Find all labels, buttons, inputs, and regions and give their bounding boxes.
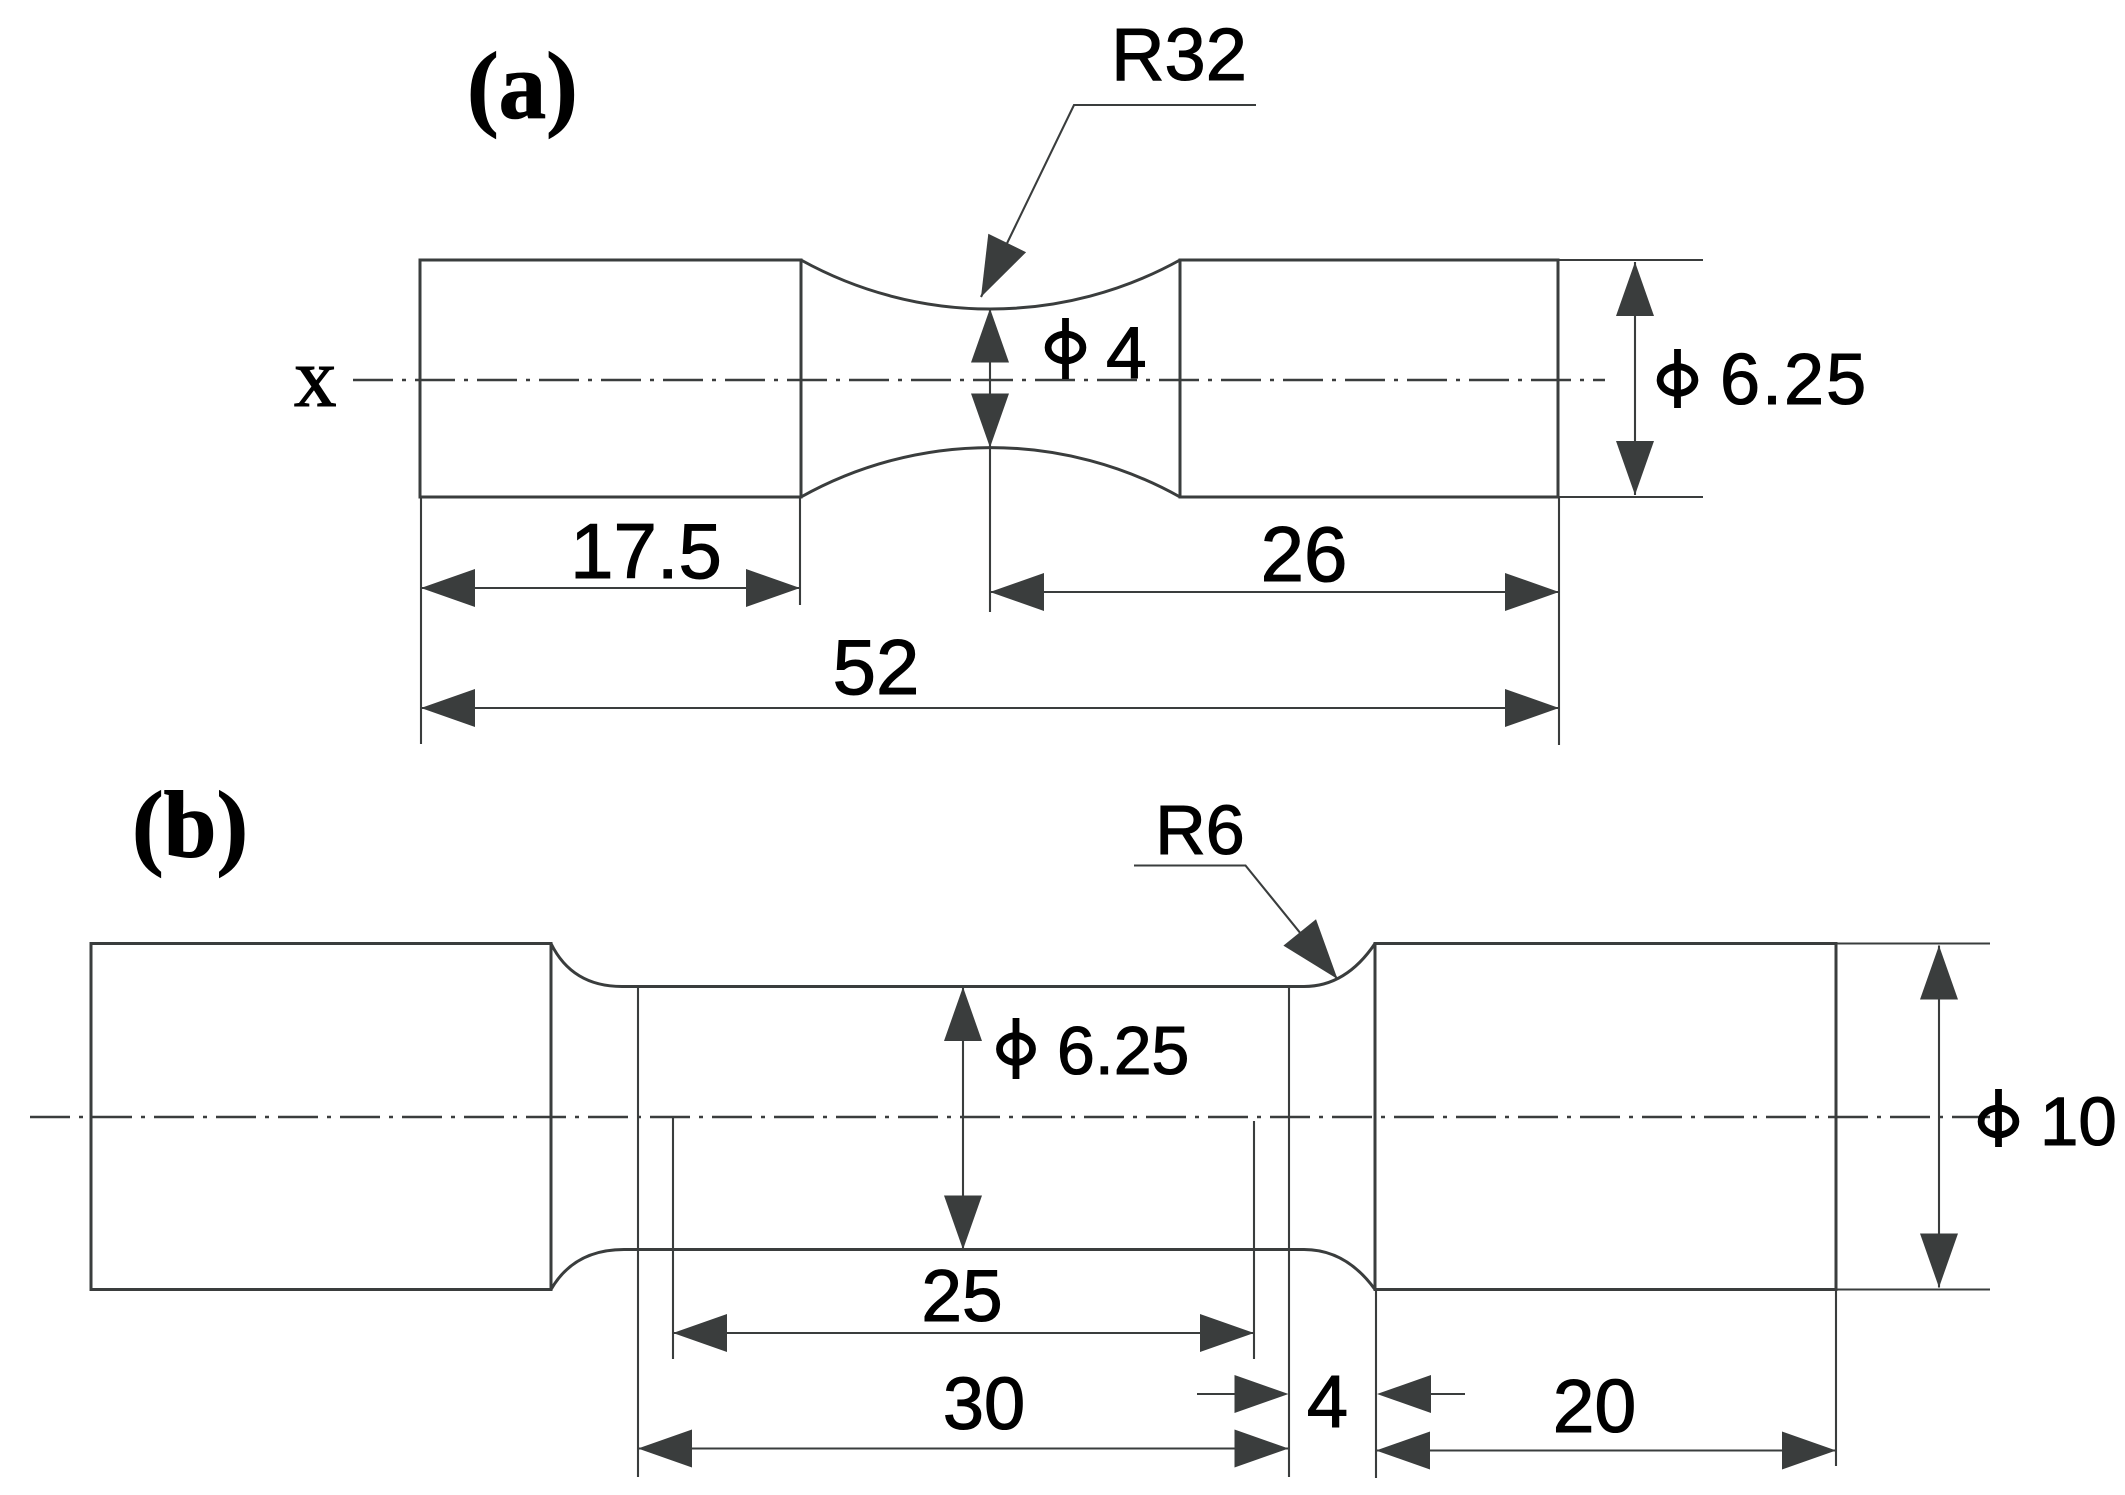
dimension 52 left arrow: [421, 689, 475, 727]
extension line gauge right b: [1288, 988, 1290, 1477]
dimension phi 10 text: [1981, 1108, 2016, 1135]
extension line 25 right tick b: [1253, 1121, 1255, 1359]
leader R6 arrowhead: [1283, 919, 1337, 979]
specimen a neck bottom arc R32: [801, 448, 1180, 497]
svg-text:30: 30: [943, 1362, 1025, 1445]
svg-text:6.25: 6.25: [1057, 1013, 1189, 1089]
dimension diameter 10 line: [1938, 946, 1940, 1288]
svg-text:10: 10: [2040, 1083, 2117, 1160]
extension line bottom right a: [1558, 496, 1703, 498]
svg-text:x: x: [294, 331, 337, 425]
svg-text:R6: R6: [1155, 791, 1244, 869]
specimen b left grip rectangle: [91, 944, 551, 1290]
dimension 30 right arrow: [1235, 1430, 1289, 1468]
specimen a right grip rectangle: [1180, 260, 1558, 497]
dimension phi 4 shaft: [989, 309, 991, 448]
dimension 26 left arrow: [990, 573, 1044, 611]
specimen b fillet top left R6: [551, 944, 622, 987]
extension line top right b: [1836, 942, 1990, 944]
centerline x-axis specimen a: [353, 379, 1605, 381]
specimen a neck top arc R32: [801, 260, 1180, 309]
extension line gauge left b: [637, 987, 639, 1478]
extension line shoulder a: [799, 497, 801, 605]
dimension 20 right arrow: [1782, 1432, 1836, 1470]
dimension 26 line: [990, 591, 1559, 593]
dimension phi 6.25 b shaft: [962, 987, 964, 1250]
dimension 26 right arrow: [1505, 573, 1559, 611]
dimension diameter 6.25 a top arrow: [1616, 262, 1654, 316]
svg-text:(b): (b): [132, 772, 248, 878]
dimension diameter 10 bottom arrow: [1920, 1234, 1958, 1288]
dimension diameter 10 top arrow: [1920, 946, 1958, 1000]
svg-text:(a): (a): [467, 33, 578, 139]
leader R32: [981, 105, 1256, 297]
dimension 20 left arrow: [1376, 1432, 1430, 1470]
dimension 25 line: [673, 1332, 1254, 1334]
extension line 25 left tick b: [672, 1118, 674, 1360]
leader R6: [1134, 866, 1338, 980]
centerline specimen b: [30, 1116, 1990, 1118]
extension line left end a: [420, 497, 422, 744]
dimension phi 6.25 a text: [1660, 367, 1695, 394]
dimension 4 left tail: [1197, 1393, 1240, 1395]
svg-text:4: 4: [1106, 313, 1147, 394]
dimension 4 right tail: [1431, 1393, 1465, 1395]
dimension 25 left arrow: [673, 1314, 727, 1352]
dimension 52 line: [421, 707, 1559, 709]
dimension 25 right arrow: [1200, 1314, 1254, 1352]
dimension 20 line: [1376, 1449, 1836, 1451]
dimension 4 right arrow (outside pointing left): [1377, 1375, 1431, 1413]
dimension 17.5 line: [421, 587, 800, 589]
dimension phi 4 down arrow: [971, 394, 1009, 448]
specimen b gauge bottom line: [624, 1248, 1304, 1251]
extension line neck center a: [989, 448, 991, 613]
extension line grip left below b: [1375, 1290, 1377, 1479]
specimen b gauge top line: [622, 985, 1304, 988]
svg-text:17.5: 17.5: [570, 507, 722, 595]
dimension diameter 6.25 a bottom arrow: [1616, 441, 1654, 495]
extension line grip right below b: [1835, 1290, 1837, 1467]
extension line right end a: [1558, 497, 1560, 745]
svg-text:4: 4: [1307, 1360, 1348, 1443]
dimension 17.5 right arrow: [746, 569, 800, 607]
specimen b right grip rectangle: [1375, 944, 1836, 1290]
svg-text:52: 52: [833, 623, 920, 711]
dimension phi 6.25 b up arrow: [944, 987, 982, 1041]
extension line bottom right b: [1836, 1288, 1990, 1290]
specimen b fillet bottom right R6: [1304, 1250, 1375, 1290]
dimension 17.5 left arrow: [421, 569, 475, 607]
specimen b fillet bottom left R6: [551, 1250, 624, 1290]
specimen b fillet top right R6: [1304, 944, 1375, 987]
specimen a left grip rectangle: [420, 260, 801, 497]
dimension phi 4 text: [1048, 334, 1083, 361]
dimension 30 line: [638, 1447, 1289, 1449]
svg-text:6.25: 6.25: [1720, 340, 1868, 420]
dimension 4 left arrow (outside pointing right): [1235, 1375, 1289, 1413]
dimension diameter 6.25 a line: [1634, 262, 1636, 495]
dimension 52 right arrow: [1505, 689, 1559, 727]
leader R32 arrowhead: [981, 234, 1026, 297]
dimension phi 4 up arrow: [971, 309, 1009, 363]
svg-text:R32: R32: [1111, 13, 1247, 96]
svg-text:20: 20: [1553, 1364, 1636, 1448]
svg-text:25: 25: [921, 1256, 1002, 1337]
svg-text:26: 26: [1261, 510, 1348, 598]
dimension phi 6.25 b down arrow: [944, 1196, 982, 1250]
dimension phi 6.25 b text: [1000, 1036, 1033, 1063]
extension line top right a: [1558, 259, 1703, 261]
dimension 30 left arrow: [638, 1430, 692, 1468]
